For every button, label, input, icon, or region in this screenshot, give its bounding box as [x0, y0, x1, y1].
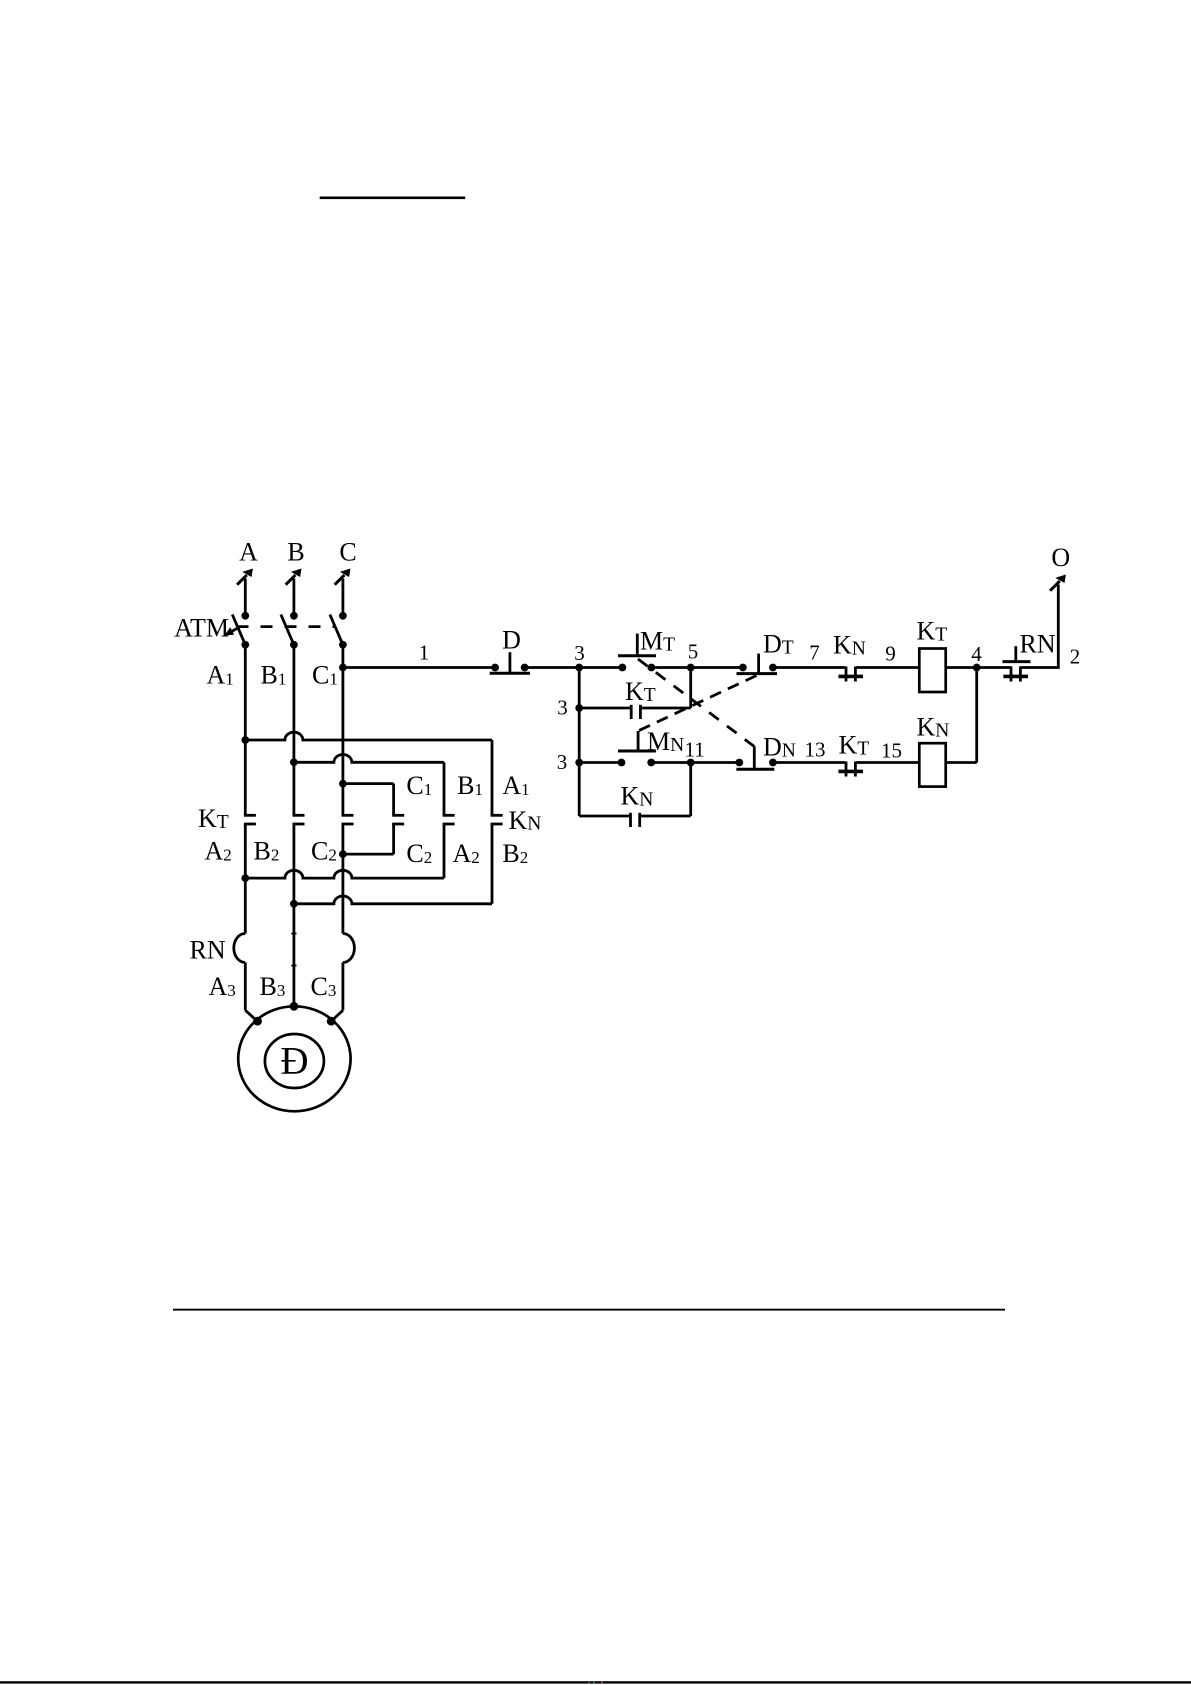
svg-text:3: 3 [574, 641, 585, 665]
separator rule [173, 1309, 1005, 1311]
wire KT coil to node4 [946, 664, 1012, 672]
coil KN label [917, 713, 950, 742]
node 7 label [809, 641, 820, 665]
contact KN NO holding [631, 813, 640, 827]
svg-text:KT: KT [917, 617, 948, 646]
contact KN NC top [838, 667, 863, 682]
svg-text:RN: RN [190, 936, 226, 965]
node B1 label right [457, 771, 483, 800]
node B2 label right [502, 839, 528, 868]
svg-text:C2: C2 [406, 839, 432, 868]
svg-text:B: B [287, 538, 304, 567]
svg-text:13: 13 [805, 738, 826, 762]
coil KT label [917, 617, 948, 646]
RN heater phase B ticks [291, 934, 296, 966]
title underline [320, 197, 466, 200]
wire KN col A upper [491, 740, 494, 815]
svg-text:O: O [1051, 543, 1070, 572]
terminal C label [339, 538, 356, 567]
breaker ATM poles [232, 612, 346, 649]
svg-text:7: 7 [809, 641, 820, 665]
pushbutton MN label [647, 727, 684, 756]
node A3 label [209, 972, 236, 1001]
svg-text:A1: A1 [502, 771, 529, 800]
svg-text:MN: MN [647, 727, 684, 756]
contact KN col B [443, 815, 455, 824]
svg-text:KN: KN [833, 631, 866, 660]
pushbutton DN label [763, 733, 796, 762]
svg-text:C: C [339, 538, 356, 567]
svg-text:MT: MT [640, 627, 675, 656]
pushbutton DT label [763, 630, 794, 659]
wire KN col B lower [241, 824, 444, 882]
wire row B to KN col [290, 754, 444, 766]
svg-text:B2: B2 [502, 839, 528, 868]
node 3 label [574, 641, 585, 665]
svg-text:C1: C1 [406, 771, 432, 800]
svg-text:C3: C3 [311, 972, 337, 1001]
node A2 label [205, 837, 232, 866]
node C1 label right [406, 771, 432, 800]
wire row A to KN col [241, 732, 492, 744]
coil KN [919, 743, 945, 786]
svg-text:RN: RN [1020, 630, 1056, 659]
terminal O arrow [1050, 575, 1066, 591]
coil KT [919, 649, 945, 693]
motor DJ [238, 1006, 350, 1111]
pushbutton MN [618, 731, 656, 766]
wire phase C upper [341, 645, 344, 816]
contact KN NC top label [833, 631, 866, 660]
wire segment 15 [856, 761, 919, 764]
contactor KN label [509, 806, 542, 835]
node 9 label [885, 642, 896, 666]
node A1 label right [502, 771, 529, 800]
contactor KT label [198, 804, 229, 833]
node C1 label [312, 661, 338, 690]
RN heater phase C [343, 934, 355, 963]
svg-text:15: 15 [881, 739, 902, 763]
svg-text:KT: KT [839, 731, 870, 760]
breaker ATM label [174, 614, 229, 643]
wire segment 7 [773, 666, 845, 669]
wire phase B upper [292, 645, 295, 816]
wire phase A upper [244, 645, 247, 816]
node A1 label [207, 661, 234, 690]
dashed link MT-DN [638, 659, 754, 747]
node 15 label [881, 739, 902, 763]
wire A to motor [245, 963, 262, 1026]
node 3c label [557, 750, 568, 774]
contact KT holding label [625, 677, 656, 706]
contact RN NC [1003, 646, 1031, 681]
breaker ATM linkage dashed [237, 625, 337, 628]
wire phase A lower [244, 824, 247, 934]
svg-text:C2: C2 [311, 837, 337, 866]
svg-text:1: 1 [419, 641, 430, 665]
terminal B label [287, 538, 304, 567]
contact KN col C [392, 815, 404, 824]
contact KT phase B [293, 815, 305, 824]
pushbutton D [490, 652, 530, 673]
svg-text:DN: DN [763, 733, 796, 762]
wire segment 2 [1020, 585, 1059, 668]
terminal B arrow [286, 569, 302, 616]
wire KN coil to node4 rail [946, 668, 977, 763]
wire segment 1 [339, 664, 495, 672]
svg-text:B1: B1 [457, 771, 483, 800]
svg-text:A2: A2 [453, 839, 480, 868]
contact KT phase A [244, 815, 256, 824]
node 13 label [805, 738, 826, 762]
pushbutton MT label [640, 627, 675, 656]
svg-text:4: 4 [971, 642, 982, 666]
breaker ATM trip arrow [224, 626, 240, 635]
node C3 label [311, 972, 337, 1001]
wire segment 9 [856, 666, 919, 669]
svg-text:B2: B2 [254, 837, 280, 866]
svg-text:3: 3 [557, 696, 568, 720]
node 2 label [1070, 645, 1081, 669]
wire KN col A lower [290, 824, 492, 908]
node 4 label [971, 642, 982, 666]
contact KN col A [491, 815, 503, 824]
dashed link DT-MN [639, 676, 757, 731]
contact RN label [1020, 630, 1056, 659]
page edge line [0, 1681, 1191, 1683]
node B1 label [261, 661, 287, 690]
wire B to motor [290, 1002, 299, 1011]
svg-text:B3: B3 [260, 972, 286, 1001]
svg-text:A3: A3 [209, 972, 236, 1001]
svg-text:B1: B1 [261, 661, 287, 690]
node 11 label [685, 738, 705, 762]
svg-text:KN: KN [509, 806, 542, 835]
contact KT phase C [342, 815, 354, 824]
contact KT NO holding [631, 705, 640, 719]
wire KN col C upper [392, 784, 395, 816]
svg-text:A2: A2 [205, 837, 232, 866]
svg-text:5: 5 [688, 640, 699, 664]
contact KN holding label [621, 782, 654, 811]
wire phase B lower [292, 824, 295, 1006]
wire segment 13 [773, 761, 845, 764]
wire KN holding left [579, 815, 630, 818]
svg-text:9: 9 [885, 642, 896, 666]
svg-text:KN: KN [917, 713, 950, 742]
svg-text:KT: KT [198, 804, 229, 833]
terminal C arrow [335, 569, 351, 616]
svg-text:D: D [502, 626, 521, 655]
svg-text:KN: KN [621, 782, 654, 811]
svg-text:3: 3 [557, 750, 568, 774]
svg-text:2: 2 [1070, 645, 1081, 669]
svg-text:DT: DT [763, 630, 794, 659]
wire row C to KN col [339, 780, 394, 788]
pushbutton DT [737, 654, 778, 674]
terminal A arrow [237, 569, 253, 616]
pushbutton D label [502, 626, 521, 655]
node 5 label [688, 640, 699, 664]
pushbutton MT [618, 634, 656, 672]
wire KN col B upper [443, 762, 446, 815]
wire KT holding right [640, 668, 690, 709]
contact KT NC bottom [838, 762, 863, 777]
node B2 label [254, 837, 280, 866]
wire MN to DN [651, 759, 739, 767]
wire KN holding right [640, 763, 691, 817]
node B3 label [260, 972, 286, 1001]
wire phase C lower [341, 824, 344, 934]
node 3b label [557, 696, 568, 720]
node C2 label right [406, 839, 432, 868]
relay RN label [190, 936, 226, 965]
wire D to node3 [525, 664, 623, 672]
terminal O label [1051, 543, 1070, 572]
svg-text:Đ: Đ [280, 1040, 308, 1083]
wire C to motor [327, 963, 343, 1026]
node A2 label right [453, 839, 480, 868]
svg-text:A1: A1 [207, 661, 234, 690]
svg-text:C1: C1 [312, 661, 338, 690]
wire node3 to MN [575, 759, 621, 767]
wire node3 rail [578, 668, 581, 817]
RN heater phase A [234, 934, 246, 963]
node 1 label [419, 641, 430, 665]
pushbutton DN [735, 746, 776, 769]
wire MT to DT [651, 664, 743, 672]
node C2 label [311, 837, 337, 866]
svg-text:A: A [239, 538, 258, 567]
svg-text:ATM: ATM [174, 614, 229, 643]
terminal A label [239, 538, 258, 567]
svg-text:11: 11 [685, 738, 705, 762]
wire KN col C lower [339, 824, 394, 858]
contact KT NC bottom label [839, 731, 870, 760]
wire KT holding left [575, 704, 631, 712]
svg-text:KT: KT [625, 677, 656, 706]
